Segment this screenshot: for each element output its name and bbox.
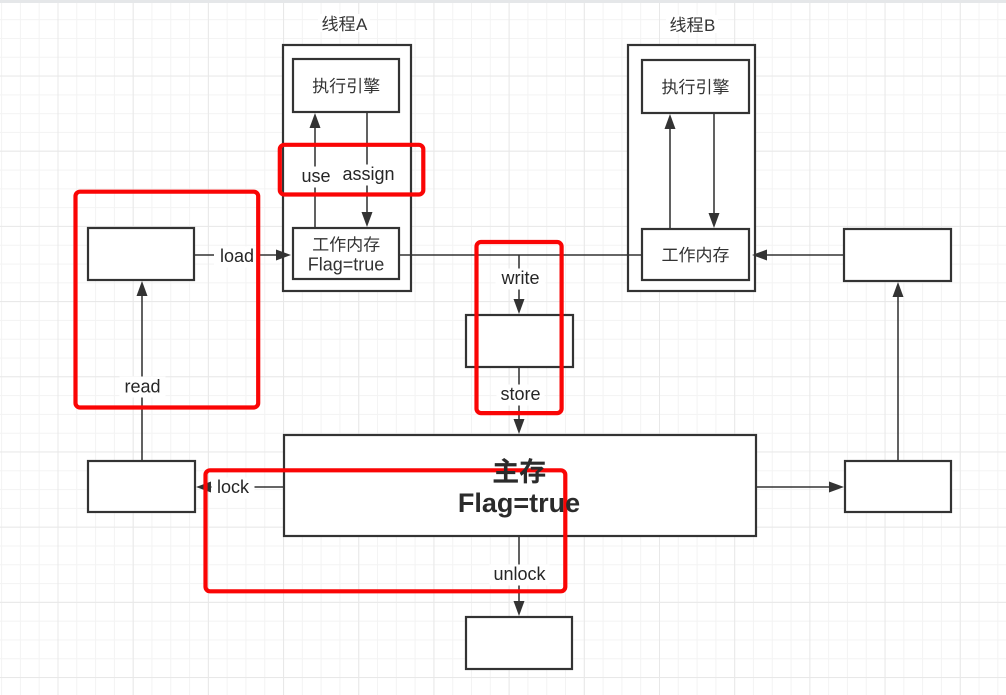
arrowhead into working-memory B left — [752, 250, 767, 261]
thread B working-memory box — [642, 229, 749, 280]
arrowhead use up — [310, 113, 321, 128]
use label background — [299, 167, 334, 188]
svg-text:Flag=true: Flag=true — [308, 255, 385, 275]
main-memory box — [284, 435, 756, 536]
label 执行引擎 thread B — [662, 79, 729, 95]
label thread-B title CJK 线程 — [670, 17, 703, 33]
arrowhead unlock down — [514, 601, 525, 616]
thread A execution-engine box — [293, 59, 399, 112]
svg-text:load: load — [220, 246, 254, 266]
label 工作内存 thread A — [313, 236, 379, 252]
wire assign (engine A down to working-memory A) — [366, 113, 368, 215]
svg-text:read: read — [124, 377, 160, 397]
right lower cache box — [845, 461, 951, 512]
arrowhead thread B up — [665, 114, 676, 129]
label 主存 main memory — [494, 458, 546, 483]
wire unlock (main memory down to bottom buffer) — [518, 537, 520, 604]
left upper cache box — [88, 228, 194, 280]
left lower cache box — [88, 461, 195, 512]
thread B execution-engine box — [642, 60, 749, 113]
wire thread B down — [713, 114, 715, 216]
svg-text:lock: lock — [217, 477, 250, 497]
thread A title label background — [318, 14, 370, 32]
bottom buffer box — [466, 617, 572, 669]
wire store (middle buffer down to main memory) — [518, 368, 520, 422]
svg-text:write: write — [500, 268, 539, 288]
wire read (left lower box up to left upper box) — [141, 294, 143, 460]
red highlight rectangle lock-unlock — [206, 470, 566, 591]
thread A working-memory box — [293, 228, 399, 279]
svg-text:store: store — [500, 384, 540, 404]
label 工作内存 thread B — [662, 247, 728, 263]
top canvas edge bar — [0, 0, 1006, 3]
arrowhead store down — [514, 419, 525, 434]
svg-text:Flag=true: Flag=true — [458, 488, 580, 518]
wire thread B up — [669, 126, 671, 228]
wire lock (main memory left to left lower box) — [208, 486, 283, 488]
label 执行引擎 thread A — [313, 78, 380, 94]
store label background — [497, 385, 545, 406]
middle buffer box — [466, 315, 573, 367]
svg-text:use: use — [301, 166, 330, 186]
wire right upper box to working-memory B — [764, 254, 843, 256]
wire working-memory A to working-memory B — [400, 254, 641, 256]
arrowhead lock left — [196, 482, 211, 493]
svg-text:A: A — [356, 15, 368, 34]
assign label background — [339, 165, 399, 186]
arrowhead right column up — [893, 282, 904, 297]
thread B title label background — [666, 15, 718, 33]
load label background — [214, 247, 260, 268]
red highlight rectangle use-assign — [280, 145, 424, 195]
lock label background — [212, 478, 255, 499]
svg-text:B: B — [704, 16, 715, 35]
arrowhead load right — [276, 250, 291, 261]
wire write (down from A-B wire to middle buffer) — [518, 255, 520, 302]
wire load (left box to working-memory A) — [195, 254, 279, 256]
red highlight rectangle left (load-read) — [76, 192, 259, 408]
wire right lower box up to right upper box — [897, 294, 899, 460]
red highlight rectangle write-store — [477, 242, 562, 413]
arrowhead thread B down — [709, 213, 720, 228]
thread A container box — [283, 45, 411, 291]
thread B container box — [628, 45, 755, 291]
label thread-A title CJK 线程 — [322, 16, 355, 32]
arrowhead read up — [137, 281, 148, 296]
read label background — [120, 377, 166, 398]
arrowhead right — [829, 482, 844, 493]
wire main memory to right lower box — [757, 486, 832, 488]
arrowhead assign down — [362, 212, 373, 227]
write label background — [496, 269, 546, 290]
unlock label background — [490, 565, 550, 586]
wire use (working-memory A up to engine A) — [314, 125, 316, 227]
svg-text:assign: assign — [342, 164, 394, 184]
right upper cache box — [844, 229, 951, 281]
svg-text:unlock: unlock — [493, 564, 546, 584]
arrowhead write down — [514, 299, 525, 314]
